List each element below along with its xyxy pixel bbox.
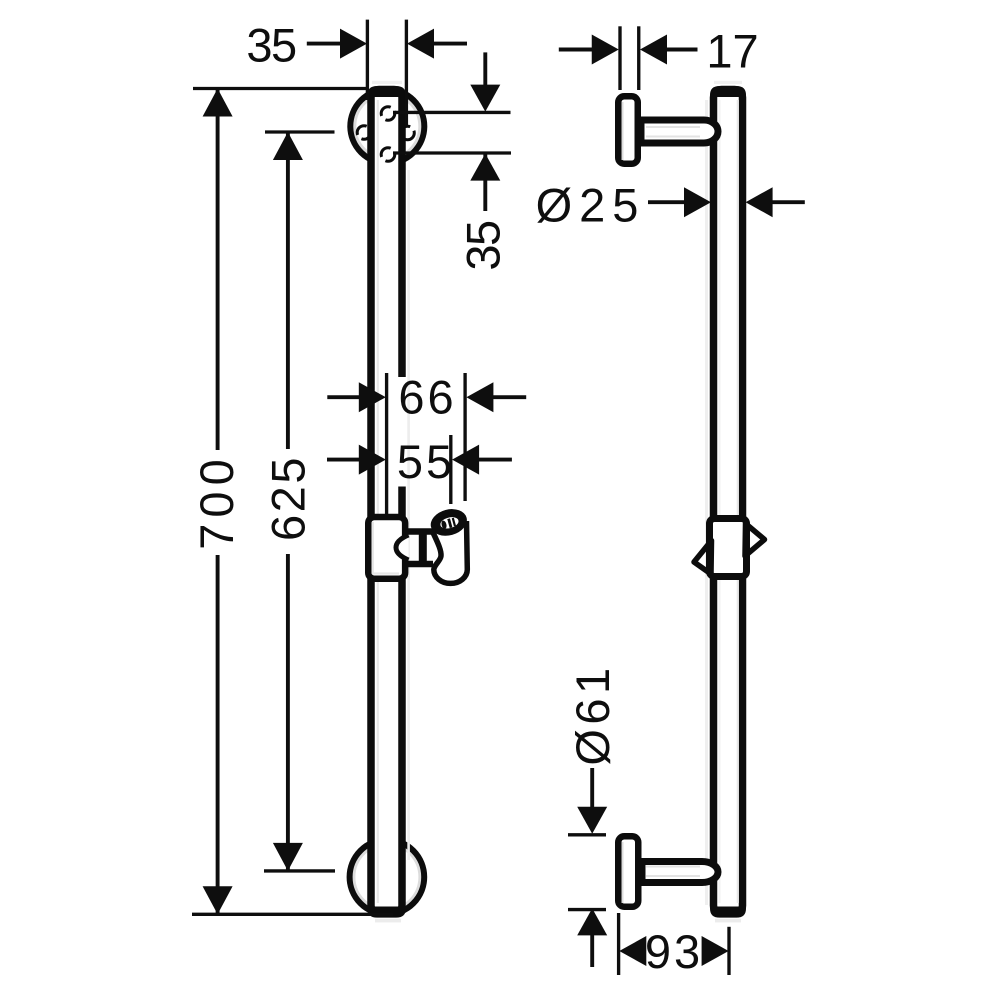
svg-text:93: 93 — [645, 925, 703, 978]
svg-text:35: 35 — [457, 221, 510, 271]
svg-text:625: 625 — [261, 455, 314, 541]
svg-text:35: 35 — [246, 18, 296, 71]
svg-text:700: 700 — [190, 453, 243, 549]
svg-text:Ø25: Ø25 — [536, 178, 646, 231]
svg-text:Ø61: Ø61 — [566, 663, 619, 765]
svg-text:66: 66 — [398, 371, 456, 424]
svg-text:17: 17 — [706, 25, 758, 78]
svg-text:55: 55 — [397, 435, 455, 488]
